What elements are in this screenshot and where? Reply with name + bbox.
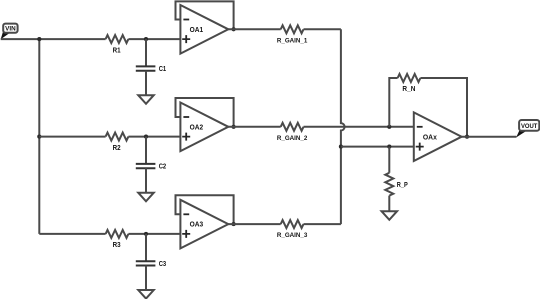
net label VOUT [516, 120, 539, 138]
wire OA2 feedback loop [176, 98, 234, 127]
resistor R_P [385, 173, 408, 196]
wire R_P to ground [388, 196, 390, 212]
junction bus row2 [37, 135, 41, 139]
junction C2 tap [144, 135, 148, 139]
wire tap down to C3 [145, 234, 147, 261]
resistor R_GAIN_2 [277, 123, 308, 142]
svg-text:OAx: OAx [423, 135, 437, 142]
ground under C1 [138, 95, 154, 104]
resistor R_GAIN_1 [277, 25, 308, 44]
junction R_N tap [387, 125, 391, 129]
wire R_N right leg to output [420, 78, 467, 137]
wire C1 to ground [145, 71, 147, 96]
svg-text:C1: C1 [159, 66, 167, 73]
junction OAx output [465, 135, 469, 139]
wire R1 to OA1 plus input [128, 38, 180, 40]
svg-text:R3: R3 [113, 242, 121, 249]
wire R_GAIN_3 to mid bus [304, 223, 341, 225]
resistor R2 [106, 133, 129, 152]
wire plus line to OAx [341, 146, 414, 148]
svg-text:R2: R2 [113, 145, 121, 152]
resistor R1 [106, 35, 129, 54]
svg-text:OA2: OA2 [190, 124, 204, 131]
wire R_GAIN_2 to OAx minus input [304, 126, 414, 128]
junction bus row1 [37, 37, 41, 41]
junction R_P tap [387, 145, 391, 149]
wire tap down to C1 [145, 39, 147, 66]
wire OA1 feedback loop [176, 1, 234, 29]
junction OA3 output [232, 222, 236, 226]
svg-text:OA1: OA1 [190, 27, 204, 34]
op-amp OA1 [180, 5, 228, 54]
wire R2 to OA2 plus input [128, 136, 180, 138]
ground under C2 [138, 193, 154, 202]
svg-text:R_GAIN_3: R_GAIN_3 [277, 232, 308, 239]
svg-text:C2: C2 [159, 164, 167, 171]
capacitor C2 [136, 164, 166, 171]
wire OA2 output to R_GAIN_2 [228, 126, 280, 128]
svg-text:R_P: R_P [397, 182, 408, 189]
ground under C3 [138, 290, 154, 299]
wire input bus vertical [38, 39, 40, 234]
wire tap down to C2 [145, 137, 147, 164]
junction OA1 output [232, 27, 236, 31]
svg-text:VOUT: VOUT [521, 123, 538, 130]
capacitor C1 [136, 66, 166, 73]
junction OA2 output [232, 125, 236, 129]
resistor R3 [106, 230, 129, 249]
junction mid bus to plus line [339, 145, 343, 149]
wire OA1 output to R_GAIN_1 [228, 28, 280, 30]
op-amp OA3 [180, 200, 228, 249]
svg-text:R_GAIN_2: R_GAIN_2 [277, 135, 308, 142]
svg-text:C3: C3 [159, 261, 167, 268]
svg-text:R1: R1 [113, 47, 121, 54]
wire OA3 feedback loop [176, 195, 234, 224]
wire VIN to R1 [1, 38, 106, 40]
wire C2 to ground [145, 168, 147, 193]
wire plus line down to R_P [388, 147, 390, 173]
wire OAx output to VOUT [462, 136, 517, 138]
junction C1 tap [144, 37, 148, 41]
resistor R_N [398, 74, 421, 93]
wire bus to R2 [39, 136, 105, 138]
svg-text:OA3: OA3 [190, 222, 204, 229]
svg-text:VIN: VIN [5, 26, 16, 33]
wire OA3 output to R_GAIN_3 [228, 223, 280, 225]
svg-text:R_GAIN_1: R_GAIN_1 [277, 37, 308, 44]
wire mid bus vertical with hop [341, 29, 345, 224]
net label VIN [1, 24, 18, 40]
junction C3 tap [144, 232, 148, 236]
svg-text:R_N: R_N [402, 86, 415, 93]
wire R3 to OA3 plus input [128, 233, 180, 235]
op-amp OAx [414, 112, 462, 161]
wire R_GAIN_1 to mid bus [304, 28, 341, 30]
wire R_N left leg [389, 78, 397, 127]
ground under R_P [382, 211, 398, 220]
capacitor C3 [136, 261, 166, 268]
resistor R_GAIN_3 [277, 220, 308, 239]
wire C3 to ground [145, 266, 147, 291]
op-amp OA2 [180, 103, 228, 152]
wire bus to R3 [39, 233, 105, 235]
